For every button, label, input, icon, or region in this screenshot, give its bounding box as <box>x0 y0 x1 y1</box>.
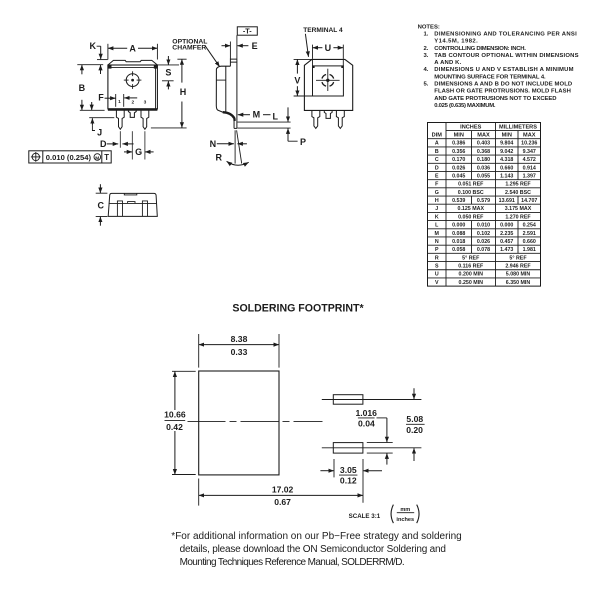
svg-text:1.143: 1.143 <box>500 173 513 179</box>
svg-text:V: V <box>435 280 439 286</box>
svg-text:E: E <box>252 41 258 51</box>
svg-text:S: S <box>165 68 171 78</box>
svg-text:4.318: 4.318 <box>500 157 513 163</box>
svg-text:1.981: 1.981 <box>523 247 536 253</box>
svg-text:INCHES: INCHES <box>460 125 481 131</box>
svg-text:2.540 BSC: 2.540 BSC <box>505 190 531 196</box>
svg-text:CHAMFER: CHAMFER <box>172 45 206 52</box>
svg-text:MILLIMETERS: MILLIMETERS <box>499 125 537 131</box>
svg-text:0.914: 0.914 <box>523 165 536 171</box>
svg-text:17.02: 17.02 <box>272 485 294 495</box>
svg-text:V: V <box>294 75 300 85</box>
svg-text:B: B <box>79 83 86 93</box>
svg-text:1.473: 1.473 <box>500 247 513 253</box>
svg-text:0.20: 0.20 <box>406 425 423 435</box>
svg-text:0.200 MIN: 0.200 MIN <box>459 272 484 278</box>
svg-text:5.: 5. <box>423 82 428 88</box>
svg-text:J: J <box>435 206 438 212</box>
svg-text:CONTROLLING DIMENSION: INCH.: CONTROLLING DIMENSION: INCH. <box>434 46 526 52</box>
svg-text:DIM: DIM <box>432 133 443 139</box>
svg-text:9.347: 9.347 <box>523 149 536 155</box>
svg-text:A: A <box>435 141 439 147</box>
svg-text:F: F <box>435 182 439 188</box>
svg-text:0.170: 0.170 <box>452 157 465 163</box>
svg-text:*For additional information on: *For additional information on our Pb−Fr… <box>171 531 461 542</box>
svg-text:L: L <box>273 111 279 121</box>
svg-text:2.: 2. <box>423 46 428 52</box>
svg-text:1.295 REF: 1.295 REF <box>505 182 531 188</box>
svg-text:14.707: 14.707 <box>521 198 537 204</box>
svg-text:1: 1 <box>118 99 121 105</box>
svg-text:details, please download the O: details, please download the ON Semicond… <box>180 544 446 555</box>
svg-text:DIMENSIONS A AND B DO NOT INCL: DIMENSIONS A AND B DO NOT INCLUDE MOLD <box>434 82 572 88</box>
svg-text:9.042: 9.042 <box>500 149 513 155</box>
svg-text:0.116 REF: 0.116 REF <box>458 264 484 270</box>
svg-text:F: F <box>98 92 104 102</box>
svg-text:0.254: 0.254 <box>523 223 536 229</box>
svg-text:N: N <box>435 239 439 245</box>
svg-text:0.12: 0.12 <box>340 476 357 486</box>
svg-text:3.175 MAX: 3.175 MAX <box>505 206 532 212</box>
svg-text:P: P <box>300 137 306 147</box>
svg-text:C: C <box>435 157 439 163</box>
svg-text:R: R <box>215 153 222 163</box>
svg-text:0.67: 0.67 <box>274 497 291 507</box>
svg-text:B: B <box>435 149 439 155</box>
svg-text:Mounting Techniques Reference: Mounting Techniques Reference Manual, SO… <box>180 557 404 568</box>
svg-text:0.368: 0.368 <box>477 149 490 155</box>
svg-text:0.180: 0.180 <box>477 157 490 163</box>
svg-text:0.04: 0.04 <box>358 418 375 428</box>
svg-text:5.080 MIN: 5.080 MIN <box>506 272 531 278</box>
svg-text:0.026: 0.026 <box>452 165 465 171</box>
svg-text:1.016: 1.016 <box>355 408 377 418</box>
svg-text:P: P <box>435 247 439 253</box>
svg-text:MAX: MAX <box>477 133 490 139</box>
svg-text:0.33: 0.33 <box>231 347 248 357</box>
svg-text:4.572: 4.572 <box>523 157 536 163</box>
svg-text:K: K <box>435 214 439 220</box>
svg-text:-T-: -T- <box>243 26 252 35</box>
svg-text:10.66: 10.66 <box>164 410 186 420</box>
svg-text:DIMENSIONS U AND V ESTABLISH A: DIMENSIONS U AND V ESTABLISH A MINIMUM <box>434 67 573 73</box>
svg-text:0.025 (0.635) MAXIMUM.: 0.025 (0.635) MAXIMUM. <box>434 103 496 109</box>
svg-text:5.08: 5.08 <box>406 414 423 424</box>
svg-text:SCALE 3:1: SCALE 3:1 <box>349 513 381 520</box>
svg-text:M: M <box>95 155 99 161</box>
svg-text:NOTES:: NOTES: <box>418 24 440 30</box>
svg-text:0.050 REF: 0.050 REF <box>458 214 484 220</box>
svg-text:MOUNTING SURFACE FOR TERMINAL: MOUNTING SURFACE FOR TERMINAL 4. <box>434 74 546 80</box>
svg-text:0.102: 0.102 <box>477 231 490 237</box>
svg-text:0.078: 0.078 <box>477 247 490 253</box>
svg-text:0.100 BSC: 0.100 BSC <box>458 190 484 196</box>
svg-text:H: H <box>180 87 187 97</box>
svg-text:0.250 MIN: 0.250 MIN <box>459 280 484 286</box>
svg-text:TAB CONTOUR OPTIONAL WITHIN DI: TAB CONTOUR OPTIONAL WITHIN DIMENSIONS <box>434 53 578 59</box>
svg-text:S: S <box>435 264 439 270</box>
svg-text:D: D <box>435 165 439 171</box>
svg-text:TERMINAL 4: TERMINAL 4 <box>303 27 343 34</box>
svg-text:3.05: 3.05 <box>340 465 357 475</box>
svg-text:0.660: 0.660 <box>500 165 513 171</box>
svg-text:AND GATE PROTRUSIONS NOT TO EX: AND GATE PROTRUSIONS NOT TO EXCEED <box>434 96 556 102</box>
svg-text:R: R <box>435 255 439 261</box>
svg-text:3: 3 <box>144 99 147 105</box>
svg-text:0.036: 0.036 <box>477 165 490 171</box>
svg-text:9.804: 9.804 <box>500 141 513 147</box>
svg-text:1.: 1. <box>423 31 428 37</box>
svg-text:1.270 REF: 1.270 REF <box>505 214 531 220</box>
svg-text:10.236: 10.236 <box>521 141 537 147</box>
svg-text:0.125 MAX: 0.125 MAX <box>458 206 485 212</box>
svg-text:N: N <box>210 139 217 149</box>
svg-text:0.000: 0.000 <box>452 223 465 229</box>
svg-text:0.000: 0.000 <box>500 223 513 229</box>
svg-text:T: T <box>104 153 109 162</box>
svg-text:2: 2 <box>131 99 134 105</box>
svg-text:0.386: 0.386 <box>452 141 465 147</box>
svg-text:C: C <box>98 200 105 210</box>
svg-text:FLASH OR GATE PROTRUSIONS. MO: FLASH OR GATE PROTRUSIONS. MOLD FLASH <box>434 89 571 95</box>
svg-text:5° REF: 5° REF <box>509 255 527 261</box>
svg-text:L: L <box>435 223 439 229</box>
svg-text:1.397: 1.397 <box>523 173 536 179</box>
svg-text:13.691: 13.691 <box>499 198 515 204</box>
svg-text:5° REF: 5° REF <box>462 255 480 261</box>
svg-text:2.946 REF: 2.946 REF <box>505 264 531 270</box>
svg-text:U: U <box>435 272 439 278</box>
svg-text:mm: mm <box>400 507 410 513</box>
svg-text:MAX: MAX <box>523 133 536 139</box>
svg-text:G: G <box>435 190 439 196</box>
svg-text:0.010: 0.010 <box>477 223 490 229</box>
svg-text:6.350 MIN: 6.350 MIN <box>506 280 531 286</box>
svg-text:0.055: 0.055 <box>477 173 490 179</box>
svg-text:A AND K.: A AND K. <box>434 60 461 66</box>
svg-text:MIN: MIN <box>454 133 464 139</box>
svg-text:DIMENSIONING AND TOLERANCING P: DIMENSIONING AND TOLERANCING PER ANSI <box>434 31 577 37</box>
svg-text:Y14.5M, 1982.: Y14.5M, 1982. <box>434 39 478 45</box>
svg-text:0.356: 0.356 <box>452 149 465 155</box>
svg-text:0.051 REF: 0.051 REF <box>458 182 484 188</box>
svg-text:E: E <box>435 173 439 179</box>
svg-text:MIN: MIN <box>502 133 512 139</box>
svg-text:D: D <box>100 139 107 149</box>
svg-text:0.42: 0.42 <box>166 422 183 432</box>
svg-text:SOLDERING FOOTPRINT*: SOLDERING FOOTPRINT* <box>232 303 364 315</box>
svg-text:U: U <box>325 43 332 53</box>
svg-text:K: K <box>90 41 97 51</box>
svg-text:J: J <box>97 128 102 138</box>
svg-text:M: M <box>253 110 261 120</box>
svg-text:2.235: 2.235 <box>500 231 513 237</box>
svg-text:0.457: 0.457 <box>500 239 513 245</box>
svg-text:2.591: 2.591 <box>523 231 536 237</box>
svg-text:0.579: 0.579 <box>477 198 490 204</box>
svg-text:0.088: 0.088 <box>452 231 465 237</box>
svg-text:0.026: 0.026 <box>477 239 490 245</box>
svg-text:4.: 4. <box>423 67 428 73</box>
svg-text:0.539: 0.539 <box>452 198 465 204</box>
svg-text:3.: 3. <box>423 53 428 59</box>
svg-text:0.660: 0.660 <box>523 239 536 245</box>
svg-text:0.045: 0.045 <box>452 173 465 179</box>
svg-text:0.018: 0.018 <box>452 239 465 245</box>
svg-text:0.403: 0.403 <box>477 141 490 147</box>
svg-text:A: A <box>129 44 136 54</box>
svg-text:0.010 (0.254): 0.010 (0.254) <box>46 153 92 162</box>
svg-text:0.058: 0.058 <box>452 247 465 253</box>
svg-text:inches: inches <box>396 517 414 523</box>
svg-text:H: H <box>435 198 439 204</box>
svg-text:G: G <box>135 147 142 157</box>
svg-text:M: M <box>435 231 440 237</box>
svg-text:8.38: 8.38 <box>231 334 248 344</box>
